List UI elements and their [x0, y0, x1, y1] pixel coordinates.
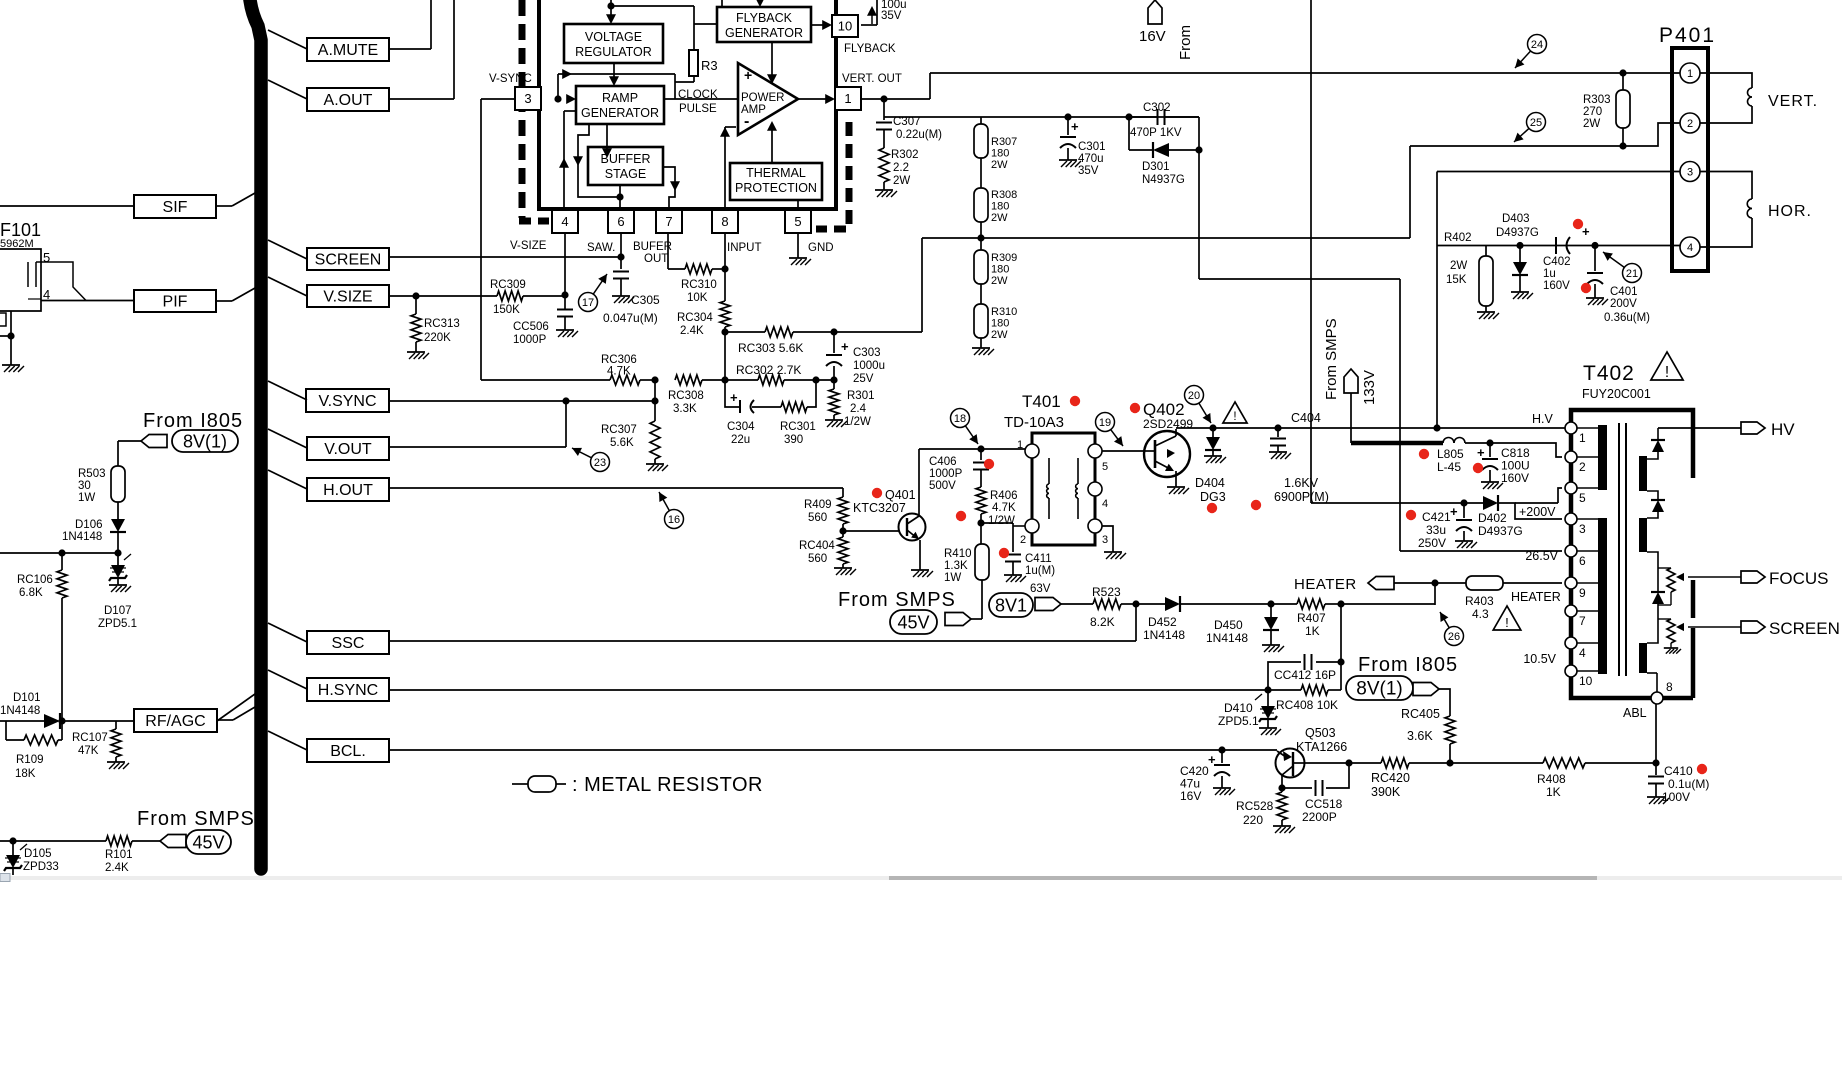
ground C410	[1647, 797, 1669, 804]
wire pin4 lead inside	[559, 111, 576, 209]
svg-text:30: 30	[78, 480, 91, 492]
IC pin 10	[832, 15, 858, 37]
svg-text:RC420: RC420	[1371, 771, 1410, 785]
wire node line y553	[0, 552, 118, 554]
flag 45V (bottom-left)	[160, 830, 231, 854]
transformer T402 left edge seg 3	[1569, 494, 1574, 513]
svg-text:SAW.: SAW.	[587, 242, 615, 254]
capacitor C420	[1208, 750, 1230, 788]
red marker C818	[1473, 463, 1483, 473]
callout 17	[579, 274, 608, 312]
svg-text:8V(1): 8V(1)	[1356, 679, 1402, 700]
red marker D404b	[1251, 500, 1261, 510]
wire VR top feed	[611, 0, 694, 6]
label R410	[944, 548, 972, 584]
label From SMPS (45V)	[838, 589, 956, 611]
svg-text:1: 1	[1017, 439, 1023, 451]
svg-text:C301: C301	[1078, 141, 1106, 153]
svg-text:5: 5	[794, 214, 801, 229]
transformer T402 core	[1619, 423, 1626, 676]
svg-text:1/2W: 1/2W	[988, 515, 1015, 527]
svg-text:FUY20C001: FUY20C001	[1582, 387, 1651, 401]
svg-text:2.4K: 2.4K	[680, 325, 704, 337]
svg-text:8: 8	[721, 214, 728, 229]
junction RC408 left	[1264, 686, 1271, 693]
label C301	[1078, 141, 1106, 177]
wire pin4 to CC506	[564, 233, 566, 309]
IC internal box BUFFER STAGE	[588, 147, 663, 185]
svg-text:63V: 63V	[1030, 583, 1051, 595]
svg-text:R308: R308	[991, 189, 1017, 201]
svg-text:RC306: RC306	[601, 354, 637, 366]
svg-text:+: +	[1582, 224, 1590, 239]
wire D402 line	[1311, 502, 1483, 504]
diode D301	[1153, 142, 1169, 158]
label L805	[1437, 447, 1464, 474]
junction C818	[1486, 439, 1493, 446]
svg-text:KTC3207: KTC3207	[853, 501, 906, 515]
svg-text:P401: P401	[1659, 24, 1716, 47]
svg-text:7: 7	[665, 214, 672, 229]
node V.SIZE label box	[307, 285, 389, 307]
wire C302/D301 loop	[1129, 117, 1199, 150]
svg-text:10K: 10K	[687, 292, 708, 304]
svg-text:3: 3	[1687, 167, 1693, 179]
capacitor CC412	[1274, 654, 1336, 682]
junction ladder mid	[977, 234, 984, 241]
junction CC412 right	[1337, 658, 1344, 665]
wire into VOLTAGE REGULATOR	[606, 6, 616, 24]
wire RC302 line	[725, 379, 834, 381]
label C307	[893, 116, 942, 141]
label RC313	[424, 318, 460, 344]
svg-text:C410: C410	[1664, 764, 1693, 778]
svg-text:V.SYNC: V.SYNC	[318, 393, 376, 410]
resistor RC310	[681, 264, 717, 304]
svg-text:8.2K: 8.2K	[1090, 615, 1115, 629]
bus main vertical signal bus	[250, 0, 261, 869]
svg-text:25: 25	[1530, 117, 1542, 129]
wire pin3 riser	[480, 99, 482, 380]
wire V.SYNC line	[389, 400, 655, 402]
label 100u 35V rail	[867, 0, 907, 24]
svg-text:4: 4	[1687, 242, 1693, 254]
svg-text:R408: R408	[1537, 772, 1566, 786]
wire RAMP feedback to pin6 node	[573, 124, 620, 197]
svg-text:R407: R407	[1297, 611, 1326, 625]
red marker Q402	[1130, 403, 1140, 413]
IC pin 4	[552, 210, 578, 233]
diode D107 zener	[109, 553, 131, 585]
svg-text:CLOCK: CLOCK	[678, 89, 718, 101]
ground RC107	[107, 762, 129, 769]
svg-text:ZPD33: ZPD33	[23, 861, 59, 873]
wire 8V1 to R503	[118, 441, 141, 466]
svg-text:BUFER: BUFER	[633, 241, 672, 253]
wire R523 to D452	[1136, 603, 1165, 605]
ground R302	[875, 190, 897, 197]
wire BUFFER to pin7	[663, 167, 680, 210]
transformer T402 left edge seg 6	[1569, 525, 1574, 545]
svg-text:160V: 160V	[1501, 471, 1529, 485]
svg-text:R523: R523	[1092, 585, 1121, 599]
junction pin3 input	[554, 95, 561, 102]
wire 133V rail	[1310, 0, 1312, 503]
red marker C402b	[1581, 283, 1591, 293]
resistor R403	[1466, 576, 1562, 590]
wire 26.5V line	[1400, 550, 1562, 552]
svg-text:25V: 25V	[853, 373, 874, 385]
svg-text:AMP: AMP	[741, 104, 766, 116]
svg-text:5: 5	[1102, 461, 1108, 473]
svg-text:1u: 1u	[1543, 268, 1556, 280]
wire pin8 lead	[724, 233, 726, 269]
ground C420	[1213, 788, 1235, 795]
resistor R309	[974, 238, 988, 304]
label From SMPS 133V	[1323, 318, 1378, 405]
svg-text:R101: R101	[105, 849, 133, 861]
ground T401 pin3	[1104, 552, 1126, 559]
resistor RC309	[490, 279, 526, 316]
svg-text:RC301: RC301	[780, 421, 816, 433]
wire HEATER to R403	[1394, 582, 1466, 584]
wire 45V rail	[0, 840, 160, 842]
svg-text:1000P: 1000P	[929, 468, 963, 480]
IC pin 6	[608, 210, 634, 233]
svg-text:R301: R301	[847, 390, 875, 402]
ground RC307	[646, 464, 668, 471]
svg-text:D107: D107	[104, 605, 132, 617]
label C404	[1291, 411, 1321, 425]
transformer T402 left edge seg 2	[1569, 434, 1574, 451]
wire pin7 lead	[668, 233, 685, 269]
label ABL	[1623, 706, 1647, 720]
svg-text:RC304: RC304	[677, 312, 713, 324]
resistor R301	[829, 380, 839, 420]
wire FLYBACK GEN top stub	[722, 0, 765, 7]
wire SIF feed line	[0, 205, 134, 207]
resistor R407	[1271, 599, 1341, 609]
label HOR.	[1768, 203, 1812, 220]
junction D450	[1267, 600, 1274, 607]
diode D105 zener	[4, 841, 27, 875]
svg-text:3: 3	[524, 91, 531, 106]
junction C303 bottom	[830, 376, 837, 383]
legend metal resistor text	[572, 774, 763, 796]
wire R3 to FLYBACK GEN	[694, 23, 717, 25]
svg-text:2: 2	[1020, 534, 1026, 546]
ui scrollbar strip	[0, 874, 1842, 882]
label D402	[1478, 511, 1523, 538]
svg-text:HEATER: HEATER	[1511, 590, 1561, 604]
svg-text:133V: 133V	[1361, 370, 1378, 405]
svg-text:9: 9	[1579, 586, 1586, 600]
svg-text:C406: C406	[929, 456, 957, 468]
svg-text:6: 6	[617, 214, 624, 229]
transformer T402 pin 8	[1651, 680, 1673, 704]
wire bus tap to V.SIZE	[268, 277, 307, 296]
svg-text:: METAL RESISTOR: : METAL RESISTOR	[572, 774, 763, 796]
svg-text:CC518: CC518	[1305, 797, 1343, 811]
warning triangle T402	[1651, 352, 1683, 381]
svg-text:8: 8	[1666, 680, 1673, 694]
wire D101 to RF/AGC box	[62, 720, 134, 722]
ground C421	[1455, 541, 1477, 548]
callout 26	[1440, 612, 1464, 646]
svg-text:+: +	[1477, 445, 1485, 460]
legend metal resistor symbol	[512, 776, 566, 792]
svg-text:0.047u(M): 0.047u(M)	[603, 311, 658, 325]
resistor R109 loop	[6, 721, 62, 745]
junction D101/RC106	[58, 717, 65, 724]
junction D105	[9, 837, 16, 844]
transformer T401 pin 4	[1088, 482, 1108, 510]
label From (rotated)	[1177, 25, 1194, 60]
svg-text:H.SYNC: H.SYNC	[318, 682, 378, 699]
diode T402 rect1	[1651, 440, 1665, 452]
IC internal box FLYBACK GENERATOR	[717, 7, 811, 42]
label D105	[23, 848, 59, 873]
svg-text:From I805: From I805	[143, 410, 243, 432]
label RC420	[1371, 771, 1410, 799]
wire FOCUS out	[1676, 573, 1741, 581]
svg-text:D101: D101	[13, 692, 41, 704]
ground D410	[1259, 728, 1281, 735]
junction RC106 node	[58, 549, 65, 556]
node H.OUT label box	[307, 478, 389, 501]
svg-text:180: 180	[991, 317, 1009, 329]
svg-text:270: 270	[1583, 106, 1602, 118]
svg-text:C404: C404	[1291, 411, 1321, 425]
svg-text:R503: R503	[78, 468, 106, 480]
label V-SIZE	[510, 240, 547, 252]
svg-text:18K: 18K	[15, 768, 36, 780]
transformer T401 primary	[1047, 458, 1049, 519]
resistor R101	[105, 836, 133, 874]
svg-text:200V: 200V	[1610, 298, 1637, 310]
wire PIF tap to bus	[216, 288, 255, 301]
node A.MUTE label box	[307, 38, 389, 61]
svg-text:390: 390	[784, 434, 803, 446]
label D404	[1195, 476, 1226, 504]
junction D106 node	[114, 549, 121, 556]
transformer T402 pin 1	[1565, 422, 1586, 445]
callout 16	[659, 492, 684, 529]
label Q401	[853, 488, 916, 515]
wire T401 pin3 lead	[1102, 526, 1113, 552]
wire pin3 input	[481, 98, 515, 100]
wire tuner to PIF	[41, 300, 134, 302]
svg-text:35V: 35V	[881, 10, 902, 22]
svg-text:4: 4	[561, 214, 568, 229]
svg-text:N4937G: N4937G	[1142, 174, 1185, 186]
diode D452	[1165, 596, 1271, 612]
svg-text:1.3K: 1.3K	[944, 560, 968, 572]
capacitor C305	[613, 272, 629, 297]
label +200V	[1519, 505, 1556, 519]
svg-text:FOCUS: FOCUS	[1769, 569, 1829, 588]
red marker C421	[1406, 510, 1416, 520]
capacitor CC506	[557, 310, 573, 331]
tuner F101 box	[0, 249, 41, 311]
svg-text:STAGE: STAGE	[605, 167, 646, 181]
svg-text:220: 220	[1243, 813, 1263, 827]
wire L805 to T402 pin2	[1465, 443, 1562, 457]
tuner F101 label	[0, 220, 41, 250]
ground D107	[109, 585, 131, 592]
junction C303 top	[830, 328, 837, 335]
label C410	[1662, 764, 1709, 804]
resistor RC313	[411, 296, 421, 352]
svg-text:2W: 2W	[893, 175, 910, 187]
wire V-SYNC dashed shield	[519, 0, 549, 221]
transistor Q401	[843, 449, 926, 570]
junction R406/R410	[977, 519, 984, 526]
wire RAMP to BUFFER	[602, 124, 612, 158]
svg-text:+: +	[1450, 504, 1458, 519]
svg-text:1K: 1K	[1305, 624, 1320, 638]
diode D402	[1483, 495, 1498, 511]
svg-text:From SMPS: From SMPS	[838, 589, 956, 611]
transformer T402 pin 7	[1565, 605, 1586, 628]
svg-text:RAMP: RAMP	[602, 91, 638, 105]
junction D301	[1195, 146, 1202, 153]
resistor R503	[78, 466, 125, 504]
wire 8V1 line	[1058, 603, 1136, 605]
label C411	[1025, 553, 1055, 595]
svg-text:RC308: RC308	[668, 390, 704, 402]
svg-text:2.4K: 2.4K	[105, 862, 129, 874]
svg-text:!: !	[1233, 411, 1236, 423]
IC I301 outline	[537, 0, 838, 209]
wire CC412 riser	[1340, 604, 1342, 690]
svg-text:D452: D452	[1148, 615, 1177, 629]
wire RF/AGC tap to bus	[217, 707, 255, 720]
ground Q402	[1167, 487, 1189, 494]
wire H.SYNC line	[389, 689, 1268, 691]
svg-text:1K: 1K	[1546, 785, 1561, 799]
svg-text:RC309: RC309	[490, 279, 526, 291]
svg-text:RC310: RC310	[681, 279, 717, 291]
label VERT.	[1768, 93, 1818, 110]
wire R503 to D106	[117, 502, 119, 519]
ground R301	[825, 420, 847, 427]
junction D404	[1209, 424, 1216, 431]
callout 20	[1185, 386, 1212, 424]
svg-text:C304: C304	[727, 421, 755, 433]
label GND	[808, 242, 834, 254]
svg-text:R3: R3	[701, 58, 718, 73]
connector P401 pin 4	[1680, 237, 1700, 257]
svg-text:1u(M): 1u(M)	[1025, 565, 1055, 577]
connector P401 label	[1659, 24, 1716, 47]
svg-text:3: 3	[1579, 522, 1586, 536]
resistor RC107	[111, 721, 121, 762]
node SCREEN label box	[307, 248, 389, 270]
svg-text:45V: 45V	[192, 832, 224, 852]
wire bus tap to A.MUTE	[268, 30, 307, 49]
svg-text:1N4148: 1N4148	[1143, 628, 1185, 642]
red marker C411	[999, 548, 1009, 558]
svg-text:2: 2	[1579, 460, 1586, 474]
junction Q503 emitter	[1345, 759, 1352, 766]
wire H.OUT line	[389, 487, 843, 489]
label Q503	[1296, 726, 1347, 754]
label D452	[1143, 615, 1185, 642]
label R302	[891, 149, 919, 187]
node BCL. label box	[307, 739, 389, 762]
IC pin 3	[515, 87, 541, 110]
svg-text:R307: R307	[991, 136, 1017, 148]
svg-text:T401: T401	[1022, 392, 1061, 411]
wire CLOCK PULSE line	[664, 98, 738, 100]
junction V.SIZE RC313	[412, 292, 419, 299]
transformer T402 left edge seg 4	[1569, 617, 1574, 637]
wire SSC riser	[389, 604, 1136, 641]
capacitor C307	[876, 99, 892, 148]
ground R310	[972, 348, 994, 355]
diode D404	[1205, 428, 1221, 456]
svg-text:560: 560	[808, 553, 827, 565]
label R409	[804, 499, 832, 524]
svg-text:D403: D403	[1502, 213, 1530, 225]
junction HEATER	[1431, 579, 1438, 586]
svg-text:DG3: DG3	[1200, 490, 1226, 504]
transformer T402 left edge seg 9	[1569, 557, 1574, 577]
svg-text:35V: 35V	[1078, 165, 1099, 177]
junction R523/SSC	[1132, 600, 1139, 607]
junction P401-3/HV	[1433, 424, 1440, 431]
svg-text:VOLTAGE: VOLTAGE	[585, 30, 642, 44]
svg-text:RC404: RC404	[799, 540, 835, 552]
wire THERMAL to pin5	[797, 200, 799, 210]
svg-text:R302: R302	[891, 149, 919, 161]
potentiometer FOCUS	[1658, 568, 1675, 605]
op-amp POWER AMP triangle	[738, 63, 798, 135]
label CC518	[1302, 797, 1343, 824]
wire tuner ground stub	[0, 311, 11, 365]
label C305	[603, 293, 660, 325]
label RC106	[17, 574, 53, 599]
junction ABL	[1652, 759, 1659, 766]
flag 45V	[890, 610, 982, 634]
svg-text:2W: 2W	[991, 329, 1008, 341]
diode D410 zener	[1255, 690, 1277, 728]
label H.V	[1532, 412, 1554, 426]
capacitor C401	[1587, 246, 1603, 299]
IC internal box VOLTAGE REGULATOR	[564, 24, 663, 63]
IC pin 1	[835, 87, 861, 110]
wire to T401 pin1	[981, 448, 1025, 450]
svg-text:D105: D105	[24, 848, 52, 860]
wire pin8 lead inside	[720, 127, 736, 209]
svg-text:Q401: Q401	[885, 488, 916, 502]
label D107	[98, 605, 137, 630]
svg-text:INPUT: INPUT	[727, 242, 762, 254]
label D450	[1206, 618, 1248, 645]
wire +200V jog	[1498, 503, 1562, 519]
svg-text:1: 1	[844, 91, 851, 106]
wire P401-3 line	[1437, 172, 1680, 429]
svg-text:From I805: From I805	[1358, 654, 1458, 676]
transformer T402 primary stubs	[1577, 428, 1598, 671]
wire right dashed shield	[816, 122, 849, 229]
svg-text:L-45: L-45	[1437, 460, 1461, 474]
wire P401-4 line	[1437, 245, 1680, 247]
capacitor C818	[1477, 443, 1498, 482]
wire RC304 node riser	[724, 332, 726, 380]
junction C307	[880, 95, 887, 102]
